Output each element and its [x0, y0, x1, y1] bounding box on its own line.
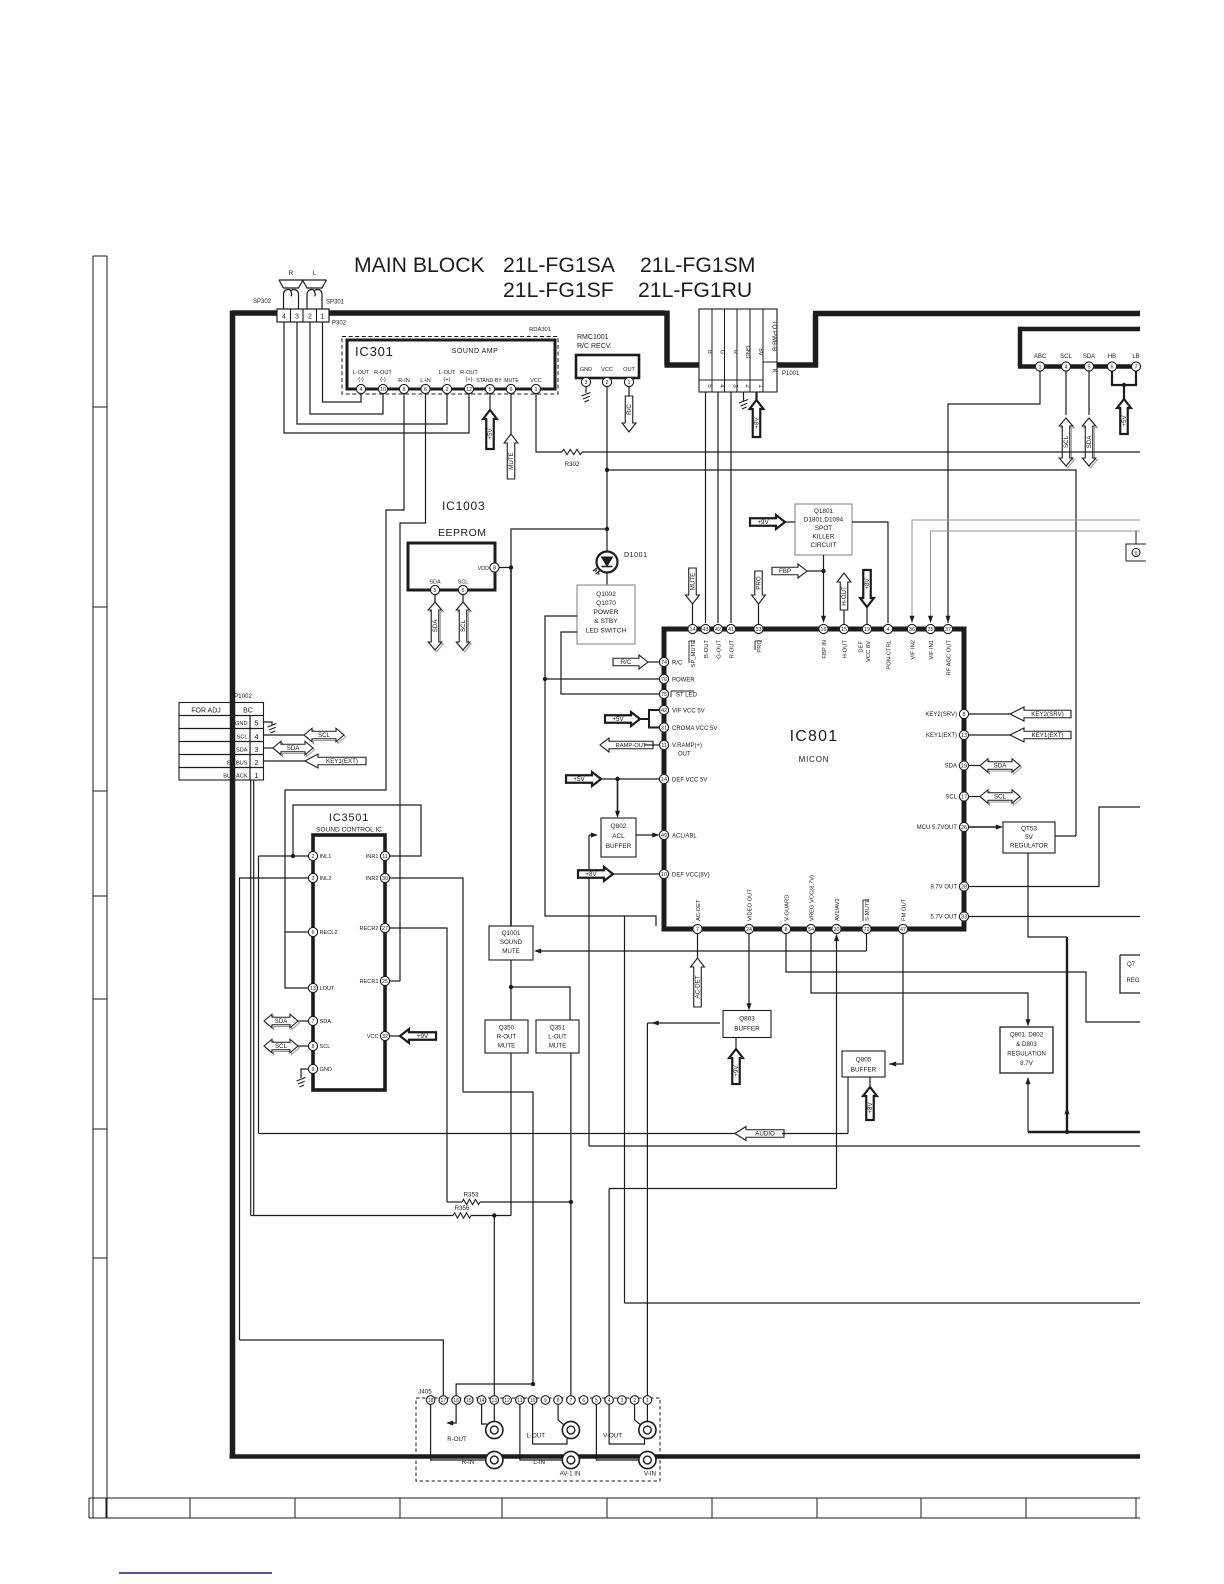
LED D1001 — [593, 552, 618, 576]
svg-text:47: 47 — [900, 927, 906, 933]
svg-text:LB: LB — [1132, 354, 1139, 360]
svg-text:G: G — [718, 350, 724, 355]
svg-text:+8V: +8V — [754, 417, 761, 429]
svg-text:14: 14 — [690, 627, 696, 633]
svg-text:AC-DET: AC-DET — [696, 899, 702, 921]
svg-text:Q1801: Q1801 — [814, 508, 834, 515]
svg-text:R356: R356 — [455, 1205, 470, 1212]
svg-text:Q805: Q805 — [856, 1057, 872, 1064]
svg-text:SCL: SCL — [945, 795, 957, 801]
svg-text:FBP IN: FBP IN — [822, 640, 828, 659]
svg-text:VCC 8V: VCC 8V — [866, 641, 872, 662]
svg-text:1: 1 — [535, 387, 538, 393]
svg-text:30: 30 — [834, 927, 840, 933]
svg-text:VIF VCC 5V: VIF VCC 5V — [672, 709, 705, 715]
wire R302 to right edge — [582, 451, 1140, 453]
svg-text:POWER: POWER — [594, 609, 619, 616]
svg-text:31: 31 — [661, 725, 667, 731]
svg-text:SCL: SCL — [460, 619, 467, 632]
svg-text:21L-FG1SA: 21L-FG1SA — [503, 254, 616, 277]
svg-text:SDA: SDA — [1086, 435, 1093, 449]
Q805 out down to audio line — [847, 1077, 849, 1134]
connector P302 — [277, 309, 329, 322]
svg-text:8.7V OUT: 8.7V OUT — [930, 885, 957, 891]
svg-text:B: B — [1134, 550, 1137, 555]
svg-text:R-OUT: R-OUT — [730, 640, 736, 659]
wire Q1801 to PON-CTRL — [852, 522, 888, 623]
wires B G R down to IC801 — [705, 392, 707, 623]
8V pin wire + +8V arrow — [755, 392, 757, 400]
svg-text:12: 12 — [466, 387, 472, 393]
svg-text:MUTE: MUTE — [498, 1043, 516, 1050]
svg-text:VREG VCC(8.7V): VREG VCC(8.7V) — [810, 875, 816, 921]
svg-text:GND: GND — [320, 1067, 332, 1073]
QT53 output wire right and up — [1055, 835, 1076, 837]
branch to Q351 — [511, 987, 570, 1020]
Q801 D802 D803 regulation box — [1000, 1027, 1053, 1073]
INR2 feed to pin16 — [456, 1092, 533, 1400]
svg-text:1: 1 — [1039, 364, 1042, 370]
svg-text:FOR ADJ: FOR ADJ — [191, 708, 221, 715]
wire junction to QT53 riser — [607, 470, 1076, 836]
svg-text:25: 25 — [382, 979, 388, 985]
IC301 pins — [356, 384, 365, 393]
vert 624 — [624, 916, 626, 1303]
svg-text:BUFFER: BUFFER — [606, 843, 632, 850]
svg-text:16: 16 — [821, 627, 827, 633]
svg-text:3: 3 — [621, 1398, 624, 1404]
svg-text:R-OUT: R-OUT — [497, 1034, 517, 1041]
SDA row wire + dbl flag — [264, 747, 275, 749]
line 1303 — [625, 1302, 1141, 1304]
svg-text:SP302: SP302 — [253, 299, 272, 305]
svg-text:KEY1(EXT): KEY1(EXT) — [926, 733, 957, 739]
svg-text:7: 7 — [312, 1019, 315, 1025]
svg-text:DEF VCC(8V): DEF VCC(8V) — [672, 873, 710, 879]
main block thick border — [232, 310, 665, 316]
+8V flag under Q805 — [869, 1077, 871, 1087]
H-OUT flag up — [837, 573, 851, 610]
svg-text:Q803: Q803 — [739, 1016, 755, 1023]
svg-text:5: 5 — [489, 387, 492, 393]
svg-text:ABC: ABC — [1034, 354, 1047, 360]
svg-text:19: 19 — [864, 627, 870, 633]
pin16 stub arrow — [450, 1404, 457, 1423]
svg-text:4: 4 — [254, 732, 258, 741]
svg-text:AUDIO: AUDIO — [755, 1131, 775, 1138]
svg-text:RMC1001: RMC1001 — [577, 334, 609, 341]
svg-text:11: 11 — [661, 743, 667, 749]
svg-text:BUFFER: BUFFER — [851, 1067, 877, 1074]
wire Q1801 bottom to FBP junction — [823, 555, 825, 571]
svg-text:D1801.D1094: D1801.D1094 — [804, 517, 844, 524]
Q350 R-OUT mute box — [485, 1020, 528, 1053]
svg-text:+9V: +9V — [757, 519, 769, 526]
svg-text:VCC: VCC — [530, 378, 541, 384]
Q1001 input arrow from S-MUTE — [537, 950, 867, 952]
svg-text:37: 37 — [945, 627, 951, 633]
svg-text:L-IN: L-IN — [420, 378, 431, 384]
SCL flag — [462, 595, 464, 602]
svg-text:1: 1 — [628, 380, 631, 386]
svg-text:IC301: IC301 — [355, 344, 394, 359]
svg-text:BC: BC — [243, 708, 253, 715]
wire down from power junction — [545, 679, 656, 926]
svg-text:7: 7 — [696, 927, 699, 933]
svg-text:42: 42 — [661, 708, 667, 714]
svg-text:AV1/AV2: AV1/AV2 — [835, 898, 841, 921]
blue reference line bottom left — [119, 1572, 272, 1574]
svg-text:VCC: VCC — [367, 1034, 379, 1040]
svg-text:LED SWITCH: LED SWITCH — [586, 628, 627, 635]
svg-text:Q1002: Q1002 — [596, 591, 616, 598]
svg-text:15: 15 — [466, 1398, 472, 1404]
svg-text:POWER: POWER — [672, 678, 695, 684]
wire pin1 video — [646, 1404, 648, 1421]
svg-text:IC801: IC801 — [790, 728, 839, 745]
svg-text:2: 2 — [744, 384, 751, 388]
svg-text:BUS ACK: BUS ACK — [223, 774, 248, 780]
svg-text:(+): (+) — [444, 377, 451, 383]
svg-text:3: 3 — [585, 380, 588, 386]
wire pin8 to L-OUT jack — [558, 1404, 563, 1424]
svg-text:+5V: +5V — [487, 428, 494, 440]
svg-text:4: 4 — [718, 384, 725, 388]
Q803 out left to video line — [647, 1022, 720, 1024]
S-MUTE wire down — [866, 934, 868, 951]
svg-text:SCL: SCL — [994, 794, 1007, 801]
long line 1146 — [589, 1145, 1140, 1147]
svg-text:R/C: R/C — [626, 404, 633, 415]
svg-text:Q1001: Q1001 — [502, 930, 521, 937]
RECR1 wire — [390, 980, 401, 982]
svg-text:GND: GND — [744, 346, 750, 359]
svg-text:Q1070: Q1070 — [596, 600, 616, 607]
speaker SP302 — [279, 280, 303, 309]
svg-text:SDA: SDA — [236, 748, 248, 754]
svg-text:PON-CTRL: PON-CTRL — [887, 639, 893, 669]
Q1001 out down — [510, 960, 512, 1020]
svg-text:R-IN: R-IN — [398, 378, 410, 384]
VIF IN1 wire gray — [931, 531, 1141, 620]
svg-text:L-OUT: L-OUT — [439, 370, 456, 376]
svg-text:13: 13 — [310, 986, 316, 992]
svg-text:QT53: QT53 — [1021, 826, 1037, 833]
svg-text:36: 36 — [909, 627, 915, 633]
wire pin4 to V-OUT jack — [609, 1404, 644, 1444]
connector P1001 TO PWB-B — [699, 309, 777, 392]
vert 609 down — [608, 1189, 610, 1401]
POWER wire to pin 76 — [545, 616, 659, 679]
+5V flag DEF VCC 5V — [566, 772, 601, 786]
IC301 box — [347, 340, 555, 389]
svg-text:+5V: +5V — [573, 776, 585, 783]
VIDEO OUT wire down to Q803 — [748, 934, 750, 1007]
svg-text:IC1003: IC1003 — [442, 499, 486, 513]
svg-text:REGULATOR: REGULATOR — [1010, 843, 1048, 850]
svg-text:4: 4 — [887, 627, 890, 633]
svg-text:MICON: MICON — [799, 755, 830, 764]
wire ABC to RF AGC — [948, 371, 1040, 623]
jack R-OUT — [486, 1421, 503, 1438]
svg-text:54: 54 — [808, 927, 814, 933]
svg-text:33: 33 — [756, 627, 762, 633]
overline SP_MUTE — [688, 641, 690, 663]
SDA dbl flag — [969, 765, 980, 767]
svg-text:L-OUT: L-OUT — [353, 370, 370, 376]
svg-text:15: 15 — [841, 627, 847, 633]
svg-text:5: 5 — [434, 588, 437, 594]
wire FBP junction to pin FBP IN — [823, 571, 825, 620]
svg-text:74: 74 — [661, 660, 667, 666]
FM OUT wire down to Q805 — [889, 934, 903, 1064]
svg-text:6: 6 — [424, 387, 427, 393]
resistor R353 — [447, 1201, 462, 1203]
svg-text:10: 10 — [380, 387, 386, 393]
QT53 5V regulator box — [1003, 822, 1055, 853]
svg-text:INL1: INL1 — [320, 854, 332, 860]
svg-text:MUTE: MUTE — [549, 1043, 567, 1050]
svg-text:KEY2(SRV): KEY2(SRV) — [925, 712, 957, 718]
svg-text:21L-FG1SF: 21L-FG1SF — [503, 279, 614, 302]
svg-text:26: 26 — [961, 825, 967, 831]
MUTE flag up — [510, 394, 512, 434]
svg-text:8: 8 — [493, 565, 496, 571]
svg-text:V-IN: V-IN — [644, 1471, 656, 1478]
VCC +9V flag — [390, 1035, 401, 1037]
svg-text:SCL: SCL — [458, 580, 469, 586]
Q1801 D1801,D1094 spot killer circuit — [795, 504, 852, 555]
svg-text:8: 8 — [403, 387, 406, 393]
svg-text:(-): (-) — [380, 377, 386, 383]
svg-text:R-OUT: R-OUT — [447, 1436, 467, 1443]
partial box right edge — [1120, 955, 1140, 993]
svg-text:INR1: INR1 — [366, 854, 379, 860]
svg-text:1: 1 — [646, 1398, 649, 1404]
svg-text:R302: R302 — [565, 461, 580, 468]
svg-text:24: 24 — [746, 927, 752, 933]
INL2 feed line to pin17 — [240, 1340, 444, 1400]
Q801 bottom wire to 8.7V rail — [1027, 1078, 1029, 1132]
svg-text:MUTE: MUTE — [690, 573, 697, 591]
svg-text:6: 6 — [462, 588, 465, 594]
+8V flag DEF VCC(8V) — [578, 867, 613, 881]
svg-text:32: 32 — [382, 1034, 388, 1040]
svg-text:19: 19 — [961, 763, 967, 769]
Q351 L-OUT mute box — [536, 1020, 579, 1053]
svg-text:GND: GND — [235, 721, 247, 727]
svg-text:17: 17 — [961, 794, 967, 800]
svg-text:9: 9 — [312, 1067, 315, 1073]
Q802 ACL buffer box — [601, 818, 636, 857]
+5V flag VIF/CROMA — [605, 712, 640, 726]
IC3501 box — [313, 835, 385, 1090]
svg-text:VIDEO OUT: VIDEO OUT — [748, 889, 754, 921]
svg-text:OUT: OUT — [623, 367, 635, 373]
svg-text:LOUT: LOUT — [320, 986, 336, 992]
svg-text:OUT: OUT — [678, 752, 691, 758]
svg-text:SDA: SDA — [1083, 354, 1095, 360]
IC801 right pins — [959, 709, 968, 718]
svg-text:R/C: R/C — [672, 661, 683, 667]
AUDIO line + flag — [259, 1133, 736, 1135]
svg-text:V-OUT: V-OUT — [603, 1433, 622, 1440]
wire pin14 to R-OUT jack — [482, 1404, 487, 1424]
svg-text:75: 75 — [661, 692, 667, 698]
HB LB join to +5V — [1112, 371, 1136, 385]
VREG VCC wire to Q801 — [811, 934, 1028, 1023]
svg-text:CIRCUIT: CIRCUIT — [811, 542, 837, 549]
Q802 out to ACL/ABL — [636, 834, 656, 836]
jack L-OUT — [562, 1421, 579, 1438]
svg-text:41: 41 — [728, 627, 734, 633]
Q803 buffer box — [723, 1011, 771, 1038]
SCL wire + flag — [1065, 371, 1067, 415]
svg-text:+5V: +5V — [612, 716, 624, 723]
8.7V rail thick — [1028, 1131, 1140, 1133]
speaker SP301 — [303, 280, 327, 309]
svg-text:1: 1 — [321, 314, 325, 321]
ST LED bracket — [670, 691, 672, 697]
svg-text:Q802: Q802 — [611, 823, 627, 830]
GND pin wire + ground — [743, 392, 745, 401]
svg-text:9: 9 — [544, 1398, 547, 1404]
svg-text:VIF IN2: VIF IN2 — [911, 640, 917, 660]
svg-text:P1002: P1002 — [234, 693, 252, 700]
svg-text:H-OUT: H-OUT — [843, 640, 849, 659]
svg-text:5V: 5V — [1025, 834, 1034, 841]
R/C flag into pin74 — [613, 655, 648, 669]
svg-text:B: B — [706, 350, 712, 354]
svg-text:Q801. D802: Q801. D802 — [1010, 1032, 1044, 1039]
INL2 wire — [240, 878, 309, 1340]
+9V flag into Q1801 — [750, 515, 785, 529]
svg-text:13: 13 — [492, 1398, 498, 1404]
INL1 wire — [259, 855, 309, 857]
svg-text:INR2: INR2 — [366, 876, 379, 882]
svg-text:2: 2 — [633, 1398, 636, 1404]
svg-text:SOUND: SOUND — [500, 939, 523, 946]
svg-text:Q7: Q7 — [1127, 962, 1136, 968]
svg-text:SDA: SDA — [287, 745, 301, 752]
svg-text:SDA: SDA — [432, 619, 439, 633]
svg-text:R: R — [289, 270, 294, 277]
small connector at right edge — [1126, 544, 1146, 561]
MUTE flag down to SP_MUTE — [686, 568, 700, 604]
Q805 buffer box — [842, 1051, 885, 1077]
wire pin2 to jack — [635, 1404, 641, 1424]
Q1002 Q1070 power & stby led switch box — [577, 585, 635, 644]
svg-text:G-OUT: G-OUT — [717, 640, 723, 659]
svg-text:5: 5 — [254, 719, 258, 728]
SDA dbl flag — [298, 1020, 309, 1022]
wire L-IN down to RECR1 riser — [400, 394, 426, 981]
svg-text:KILLER: KILLER — [812, 534, 834, 541]
svg-text:8.7V: 8.7V — [1020, 1060, 1034, 1067]
INR2 wire down — [390, 878, 464, 1092]
svg-text:SDA: SDA — [320, 1019, 332, 1025]
speaker wires to IC301 — [323, 322, 362, 402]
Q350 down to R356 — [510, 1053, 512, 1216]
svg-text:5: 5 — [595, 1398, 598, 1404]
table wires down — [250, 780, 252, 1216]
jack V-IN — [639, 1451, 656, 1468]
svg-text:KEY1(EXT): KEY1(EXT) — [1032, 732, 1064, 739]
svg-text:8: 8 — [557, 1398, 560, 1404]
svg-text:27: 27 — [382, 926, 388, 932]
svg-text:SDA: SDA — [994, 763, 1008, 770]
+5V wire down to Q802 — [617, 779, 619, 814]
svg-text:8: 8 — [312, 1044, 315, 1050]
svg-text:RECR1: RECR1 — [360, 979, 379, 985]
page border ruler column left — [92, 256, 94, 1518]
svg-text:3: 3 — [731, 384, 738, 388]
svg-text:HB: HB — [1108, 354, 1116, 360]
svg-text:RECL2: RECL2 — [320, 930, 338, 936]
jack V-OUT — [639, 1421, 656, 1438]
VIF IN2 wire gray — [912, 520, 1140, 620]
svg-text:14: 14 — [661, 777, 667, 783]
svg-text:MUTE: MUTE — [508, 452, 515, 470]
svg-text:PRO: PRO — [757, 640, 763, 653]
svg-text:17: 17 — [441, 1398, 447, 1404]
svg-text:6: 6 — [582, 1398, 585, 1404]
svg-text:+8V: +8V — [867, 1102, 874, 1114]
svg-text:6: 6 — [312, 930, 315, 936]
jack L-IN — [562, 1451, 579, 1468]
svg-text:R353: R353 — [464, 1192, 479, 1199]
+5V flag stand-by — [489, 394, 491, 410]
svg-text:V.RAMP(+): V.RAMP(+) — [672, 743, 702, 749]
svg-text:3: 3 — [295, 314, 299, 321]
AC-DET wire + flag — [697, 934, 699, 958]
svg-text:KEY1(EXT): KEY1(EXT) — [326, 758, 358, 765]
FBP flag — [772, 564, 807, 578]
svg-text:L: L — [313, 270, 317, 277]
svg-text:4: 4 — [1065, 364, 1068, 370]
svg-text:SCL: SCL — [237, 735, 248, 741]
svg-text:3: 3 — [254, 745, 258, 754]
svg-text:RECR2: RECR2 — [360, 926, 379, 932]
svg-text:9: 9 — [510, 387, 513, 393]
GND pin wire + ground — [301, 1069, 309, 1078]
svg-text:2: 2 — [446, 387, 449, 393]
svg-text:SDA: SDA — [945, 764, 957, 770]
J405 pins — [426, 1396, 435, 1405]
resistor R356 — [251, 1215, 453, 1217]
svg-text:MCU 5.7VOUT: MCU 5.7VOUT — [917, 825, 958, 831]
svg-text:1: 1 — [254, 771, 258, 780]
svg-text:V-GUARD: V-GUARD — [785, 895, 791, 921]
svg-text:REG: REG — [1126, 978, 1139, 984]
svg-text:BUFFER: BUFFER — [734, 1026, 760, 1033]
IC801 top pins — [688, 624, 697, 633]
svg-text:3: 3 — [312, 876, 315, 882]
svg-text:35: 35 — [928, 627, 934, 633]
svg-text:EX BUS: EX BUS — [227, 761, 248, 767]
svg-text:H-OUT: H-OUT — [841, 586, 848, 606]
VDD wire to D1001 line — [499, 529, 607, 568]
svg-text:SCL: SCL — [320, 1044, 331, 1050]
wire pin10 to L-OUT jack — [533, 1404, 567, 1444]
svg-text:(+): (+) — [466, 377, 473, 383]
svg-text:SPOT: SPOT — [815, 525, 832, 532]
svg-text:R: R — [731, 350, 737, 354]
svg-text:KEY2(SRV): KEY2(SRV) — [1031, 711, 1064, 718]
svg-text:CROMA VCC 5V: CROMA VCC 5V — [672, 726, 717, 732]
svg-text:VIF IN1: VIF IN1 — [929, 640, 935, 660]
svg-text:INL2: INL2 — [320, 876, 332, 882]
